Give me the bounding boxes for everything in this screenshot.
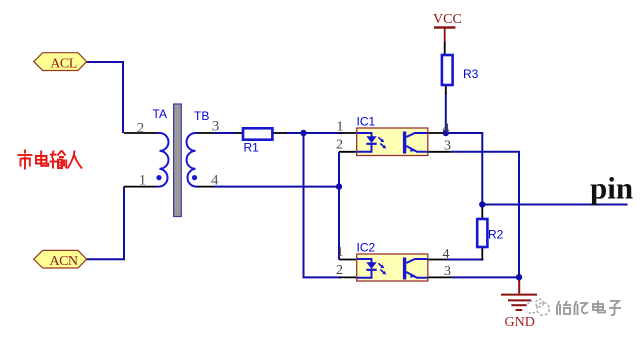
- svg-text:R3: R3: [463, 67, 479, 81]
- svg-text:R1: R1: [244, 141, 260, 155]
- svg-text:3: 3: [212, 119, 220, 135]
- svg-text:4: 4: [211, 172, 219, 188]
- svg-text:4: 4: [443, 247, 450, 262]
- svg-text:2: 2: [137, 121, 145, 137]
- svg-text:ACL: ACL: [50, 57, 77, 72]
- svg-text:GND: GND: [505, 315, 535, 330]
- svg-text:R2: R2: [488, 228, 504, 242]
- svg-text:IC2: IC2: [357, 241, 376, 255]
- svg-text:VCC: VCC: [433, 12, 462, 27]
- svg-text:ACN: ACN: [49, 254, 77, 269]
- svg-text:1: 1: [337, 245, 344, 260]
- svg-text:3: 3: [444, 264, 451, 279]
- svg-text:TA: TA: [153, 107, 167, 121]
- svg-text:1: 1: [139, 172, 147, 188]
- svg-text:pin: pin: [590, 171, 633, 206]
- svg-text:2: 2: [336, 263, 343, 278]
- svg-text:IC1: IC1: [357, 115, 376, 129]
- svg-text:4: 4: [443, 122, 450, 137]
- svg-text:2: 2: [336, 138, 343, 153]
- svg-text:3: 3: [444, 139, 451, 154]
- svg-text:TB: TB: [194, 109, 209, 123]
- svg-text:1: 1: [337, 120, 344, 135]
